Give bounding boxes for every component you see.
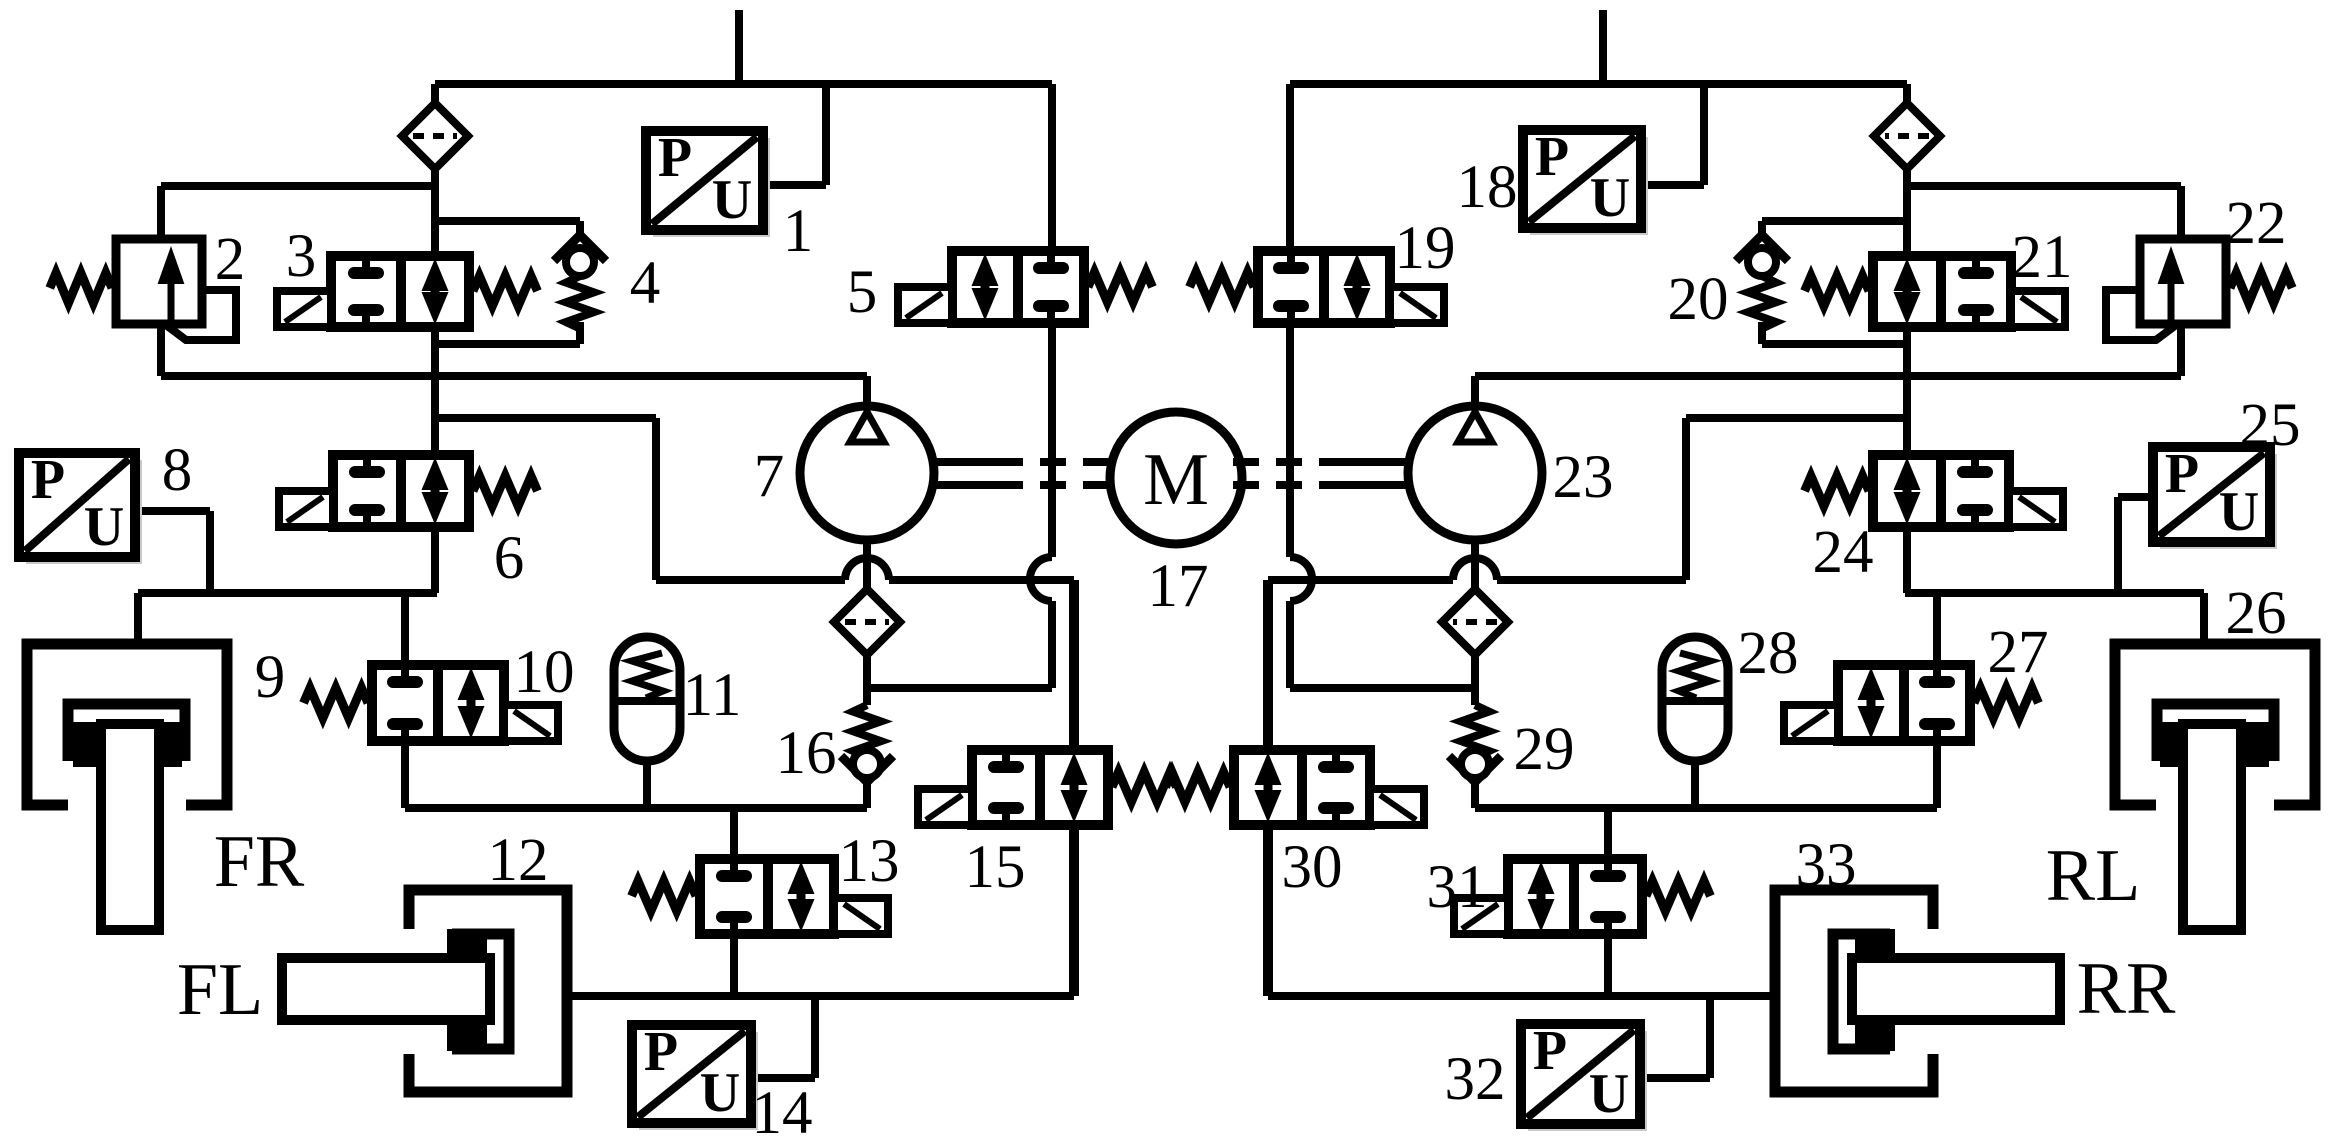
wire [1762,217,1907,225]
wire [134,593,142,648]
pump 7 [800,406,934,540]
wire [1682,418,1690,580]
solenoid valve 30 [1166,750,1424,825]
wire [863,653,871,705]
wire [863,540,871,600]
solenoid valve 13 [632,859,888,934]
pressure sensor P/U 18 [1523,126,1648,235]
svg-text:P: P [644,1021,678,1083]
wire [763,181,826,189]
svg-text:10: 10 [514,639,575,706]
svg-text:U: U [2219,481,2259,543]
wire [567,992,1074,1000]
wire [1903,527,1911,593]
wire [997,481,1111,489]
check valve 29 [1449,705,1501,808]
svg-text:U: U [1589,1063,1629,1125]
wire [889,576,1074,584]
wire [2118,493,2153,501]
solenoid valve 27 [1784,665,2038,741]
filter F3 [1874,103,1940,169]
wire [1475,804,1937,812]
wire [811,996,819,1078]
relief valve 2 [50,239,236,340]
svg-text:15: 15 [965,834,1026,901]
wire [1691,761,1699,808]
pressure sensor P/U 32 [1521,1020,1647,1131]
svg-text:33: 33 [1796,832,1857,899]
svg-text:7: 7 [754,443,785,510]
svg-text:P: P [2165,443,2199,505]
wire [206,511,214,593]
wire [431,527,439,593]
solenoid valve 21 [1805,256,2065,327]
brake caliper 9 (FR) [27,644,227,930]
svg-text:11: 11 [683,662,742,729]
svg-text:21: 21 [2012,224,2073,291]
wire [1286,84,1294,251]
wire [2200,593,2208,648]
wire [1290,80,1907,88]
wire [1497,576,1686,584]
svg-text:2: 2 [215,226,246,293]
svg-text:12: 12 [488,827,549,894]
wire [730,808,738,859]
wire [751,1074,815,1082]
wire [1263,580,1273,750]
filter F4 [1442,589,1508,655]
motor M 17 [1110,412,1242,544]
pressure sensor P/U 8 [19,449,142,564]
svg-text:P: P [1535,126,1569,188]
wire [656,576,845,584]
svg-text:27: 27 [1988,619,2049,686]
wire [435,340,580,348]
check valve 4 [554,221,606,344]
wire crossing hump [1453,558,1497,580]
svg-text:16: 16 [776,720,837,787]
wire [1286,601,1294,688]
wire [1263,825,1273,996]
filter F2 [834,589,900,655]
brake caliper 12 (FL) [282,890,567,1092]
wire [401,741,409,808]
wire [2177,186,2185,243]
check valve 20 [1736,221,1788,344]
pressure sensor P/U 25 [2153,443,2277,549]
right-half mirrored circuit [1166,10,2315,1092]
svg-text:13: 13 [839,828,900,895]
svg-text:28: 28 [1738,620,1799,687]
svg-text:6: 6 [494,525,525,592]
wire [1268,576,1453,584]
pressure sensor P/U 1 [646,127,770,237]
pressure sensor P/U 14 [632,1021,758,1130]
wire [1069,825,1079,996]
wire crossing hump [845,558,889,580]
wire [1286,323,1294,557]
wire [401,593,409,665]
wire [1471,540,1479,600]
wire [1604,934,1612,996]
wire [1604,808,1612,859]
wire [1933,593,1941,665]
svg-text:8: 8 [162,437,193,504]
svg-text:RR: RR [2077,948,2176,1030]
solenoid valve 15 [918,750,1176,825]
wire [135,507,210,515]
svg-text:M: M [1143,439,1209,521]
solenoid valve 31 [1454,859,1710,934]
solenoid valve 3 [277,256,537,327]
wire [643,761,651,808]
solenoid valve 5 [898,251,1152,323]
wire [1231,481,1345,489]
svg-text:17: 17 [1148,553,1209,620]
wire [822,84,830,185]
wire [1268,992,1775,1000]
accumulator 11 [614,637,680,761]
svg-text:3: 3 [286,223,317,290]
filter F1 [402,103,468,169]
wire [2177,324,2185,376]
solenoid valve 19 [1190,251,1444,323]
wire [1471,376,1479,410]
wire [1069,580,1079,750]
svg-text:U: U [712,169,752,231]
svg-text:25: 25 [2240,392,2301,459]
svg-text:1: 1 [783,198,814,265]
wire [1903,327,1911,455]
svg-text:26: 26 [2226,580,2287,647]
svg-text:29: 29 [1514,716,1575,783]
wire [1475,372,2181,380]
wire [138,589,437,597]
wire [730,934,738,996]
wire [1903,84,1911,256]
wire [1640,1074,1710,1082]
wire [1905,589,2204,597]
wire [1686,414,1907,422]
svg-text:RL: RL [2046,835,2141,917]
wire crossing arc [1290,557,1312,601]
wire [1706,996,1714,1078]
wire [435,217,580,225]
pump 23 [1408,406,1542,540]
wire [1907,182,2181,190]
brake caliper 26 (RL) [2115,644,2315,930]
wire [652,418,660,580]
wire [435,80,1052,88]
wire [863,376,871,410]
wire [431,327,439,455]
wire [1471,653,1479,705]
svg-text:P: P [1533,1020,1567,1082]
wire [1700,84,1708,185]
wire [1345,458,1408,466]
svg-text:23: 23 [1553,444,1614,511]
solenoid valve 6 [279,455,537,527]
svg-text:20: 20 [1668,266,1729,333]
solenoid valve 10 [304,665,558,741]
svg-text:U: U [84,496,124,558]
wire [161,372,867,380]
solenoid valve 24 [1805,455,2063,527]
svg-text:FL: FL [177,949,263,1031]
svg-text:U: U [1590,167,1630,229]
wire [1231,458,1345,466]
svg-text:24: 24 [1813,519,1874,586]
wire [1048,84,1056,251]
svg-text:31: 31 [1427,854,1488,921]
wire [1048,601,1056,688]
wire [867,684,1052,692]
check valve 16 [841,705,893,808]
wire crossing arc [1030,557,1052,601]
wire [1345,481,1408,489]
accumulator 28 [1662,637,1728,761]
svg-text:P: P [31,449,65,511]
svg-text:9: 9 [255,644,286,711]
wire [997,458,1111,466]
wire [157,186,165,243]
svg-text:U: U [700,1062,740,1124]
wire [161,182,435,190]
wire [1290,684,1475,692]
wire [1599,10,1607,84]
wire [1641,181,1704,189]
wire [934,481,997,489]
svg-text:FR: FR [214,821,305,903]
wire [405,804,867,812]
wire [1933,741,1941,808]
wire [934,458,997,466]
svg-text:5: 5 [847,259,878,326]
svg-text:P: P [658,127,692,189]
wire [1048,323,1056,557]
brake caliper 33 (RR) [1775,890,2060,1092]
wire [735,10,743,84]
relief valve 22 [2106,239,2292,340]
wire [435,414,656,422]
svg-text:14: 14 [752,1080,813,1147]
svg-text:4: 4 [630,250,661,317]
wire [1762,340,1907,348]
wire [2114,497,2122,593]
svg-text:30: 30 [1282,834,1343,901]
svg-text:22: 22 [2226,190,2287,257]
svg-text:32: 32 [1445,1046,1506,1113]
svg-text:19: 19 [1395,215,1456,282]
wire [157,324,165,376]
wire [431,84,439,256]
svg-text:18: 18 [1457,154,1518,221]
